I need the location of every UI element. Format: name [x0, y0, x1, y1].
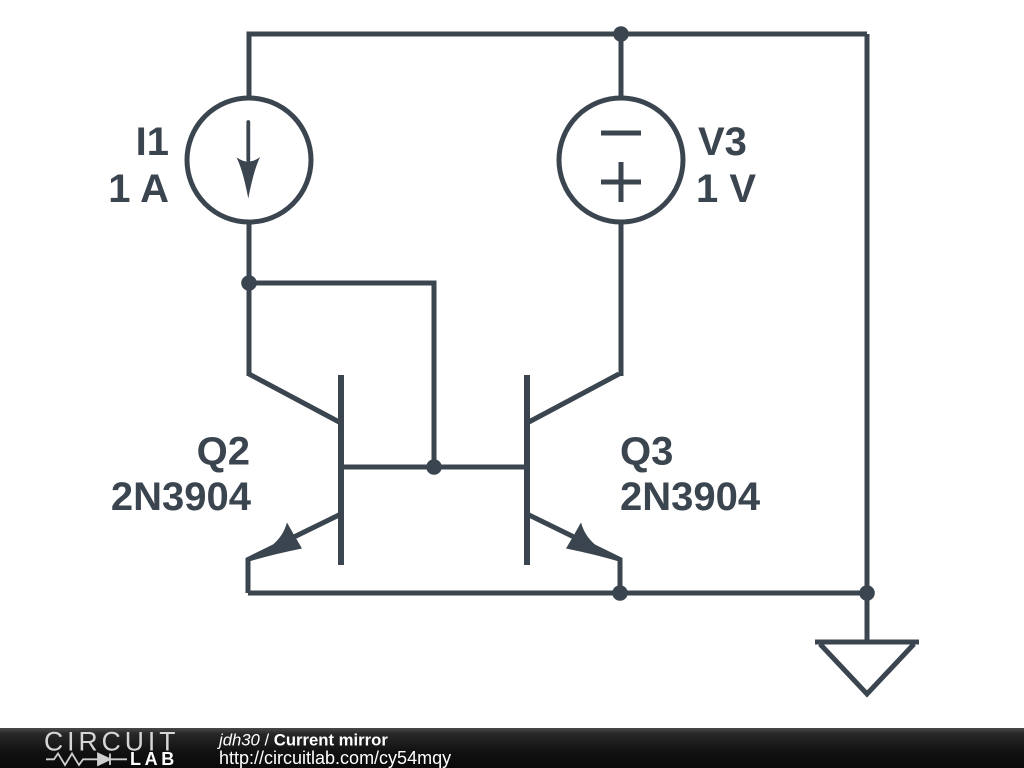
svg-text:jdh30 / Current mirror: jdh30 / Current mirror [217, 731, 388, 750]
node dot base [426, 459, 442, 475]
node dot ground [859, 585, 875, 601]
voltage source V3 [559, 98, 683, 222]
wire V3 top lead [619, 32, 624, 99]
wire V3 bottom lead / Q3 collector [619, 222, 624, 376]
svg-text:2N3904: 2N3904 [111, 475, 252, 519]
logo resistor-diode squiggle [46, 754, 127, 766]
node dot top [613, 26, 629, 42]
svg-text:V3: V3 [698, 120, 747, 164]
wire Q2 collector lead [247, 283, 252, 376]
svg-text:http://circuitlab.com/cy54mqy: http://circuitlab.com/cy54mqy [219, 748, 451, 768]
node dot emitter rail [612, 585, 628, 601]
svg-text:Q2: Q2 [197, 430, 250, 474]
wire I1 top lead [247, 32, 252, 99]
node dot A [241, 275, 257, 291]
wire I1 bottom lead [247, 222, 252, 283]
current source I1 [187, 98, 311, 222]
wire base rail Q2-Q3 [341, 465, 527, 470]
svg-text:2N3904: 2N3904 [620, 475, 761, 519]
footer bar [0, 728, 1024, 768]
svg-text:I1: I1 [136, 120, 169, 164]
wire right side [865, 34, 870, 593]
svg-text:1 V: 1 V [696, 167, 756, 211]
svg-text:Q3: Q3 [620, 430, 673, 474]
svg-text:LAB: LAB [130, 749, 178, 768]
transistor Q2 [246, 374, 342, 593]
wire top rail [249, 32, 867, 37]
ground [815, 642, 919, 694]
wire ground lead [865, 593, 870, 642]
wire node A to base tap [249, 283, 434, 467]
transistor Q3 [527, 374, 623, 593]
svg-text:1 A: 1 A [108, 167, 169, 211]
wire bottom rail [248, 591, 867, 596]
